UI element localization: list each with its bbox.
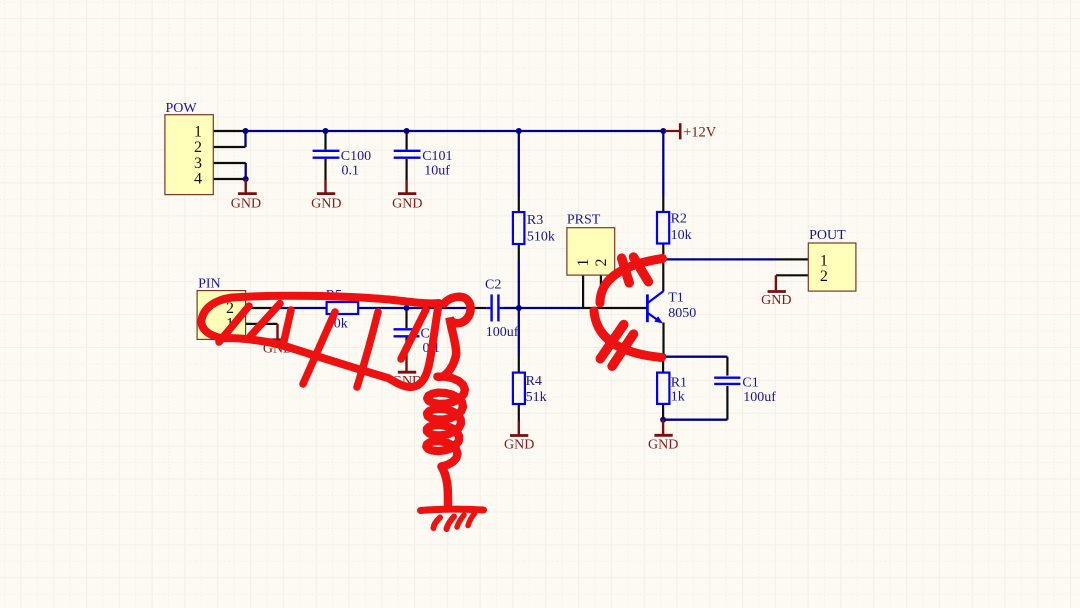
pin lead: T1 base	[581, 307, 646, 309]
svg-text:T1: T1	[668, 291, 684, 306]
capacitor C100	[313, 150, 340, 152]
junction: +12V rail node	[660, 128, 666, 134]
svg-text:R1: R1	[671, 375, 687, 390]
red annotation: ground tick 3	[457, 515, 464, 527]
pin stub: PIN pin 1	[246, 323, 278, 325]
svg-text:GND: GND	[648, 438, 678, 453]
svg-text:+12V: +12V	[683, 124, 717, 140]
ground symbol C3	[405, 355, 407, 372]
pin stub: POW pin 4	[213, 178, 245, 180]
pin lead: C1 bottom	[726, 386, 728, 420]
pin lead: T1 collector	[662, 259, 664, 291]
red annotation: upper capacitor plate 2	[634, 257, 649, 282]
pin lead: R4 bottom	[518, 404, 520, 422]
svg-text:100uf: 100uf	[743, 390, 776, 405]
pin stub: PRST pin 1	[582, 275, 584, 308]
svg-text:51k: 51k	[526, 390, 547, 405]
wire: rail to R3	[518, 131, 520, 197]
svg-text:PIN: PIN	[198, 276, 221, 291]
svg-text:1: 1	[820, 252, 828, 269]
svg-text:POUT: POUT	[809, 228, 846, 243]
junction: base node	[516, 305, 522, 311]
svg-text:100uf: 100uf	[486, 325, 519, 340]
red annotation: lower capacitor plate 1	[600, 325, 624, 359]
wire: C1 bottom to R1 bottom	[663, 419, 727, 421]
svg-text:GND: GND	[231, 197, 261, 212]
junction: POW pin1 node	[243, 128, 249, 134]
svg-text:R3: R3	[527, 213, 543, 228]
connector PIN box	[197, 291, 246, 340]
svg-text:GND: GND	[761, 293, 791, 308]
connector PRST box	[567, 228, 615, 275]
red annotation: ground bar	[421, 509, 484, 510]
pin lead: C101 bottom	[406, 159, 408, 180]
connector POUT box	[808, 243, 856, 291]
wire: base node to T1 base	[519, 307, 581, 309]
svg-text:POW: POW	[166, 101, 198, 116]
ground symbol POW	[244, 179, 246, 193]
wire: R5 to C3 node	[358, 307, 406, 309]
resistor R2	[657, 212, 669, 244]
svg-text:R2: R2	[671, 211, 687, 226]
svg-text:2: 2	[820, 268, 828, 285]
svg-text:GND: GND	[504, 437, 534, 452]
svg-text:1: 1	[575, 259, 592, 267]
pin stub: POW pin 1	[213, 130, 245, 132]
ground symbol R4	[518, 422, 520, 435]
wire: R3 to base node	[518, 261, 520, 309]
resistor R4	[513, 373, 525, 404]
pin lead: R2 top	[662, 197, 664, 213]
transistor T1 base bar	[646, 294, 649, 322]
wire: collector node to POUT	[663, 258, 776, 260]
red annotation: lower capacitor plate 2	[612, 334, 633, 366]
red annotation: hatch stroke 3	[303, 312, 335, 384]
wire: POW pin1-pin2 link	[244, 131, 246, 147]
wire: +12V power rail	[246, 130, 664, 132]
capacitor C3	[394, 328, 420, 330]
red annotation: hatch stroke 1	[219, 306, 249, 342]
svg-text:C100: C100	[341, 149, 371, 164]
svg-text:R4: R4	[526, 374, 542, 389]
svg-text:10k: 10k	[671, 228, 692, 243]
pin stub: PRST pin 2	[600, 275, 602, 308]
red annotation: hatch stroke 6	[401, 310, 426, 360]
svg-text:GND: GND	[392, 197, 422, 212]
svg-text:2: 2	[194, 139, 202, 156]
pin lead: C1 top	[726, 357, 728, 376]
svg-text:C1: C1	[742, 375, 758, 390]
resistor R3	[513, 212, 525, 244]
junction: emitter node	[661, 354, 667, 360]
svg-text:2: 2	[593, 259, 610, 267]
red annotation: lead down to ground	[442, 467, 449, 505]
pin lead: C101 top	[406, 131, 408, 150]
wire: base node to R4	[518, 308, 520, 356]
pin lead: R3 bottom	[518, 244, 520, 261]
pin lead: R2 bottom	[662, 244, 664, 260]
ground symbol PIN pin1	[276, 324, 278, 339]
red annotation: lower capacitor arc	[594, 311, 662, 358]
pin lead: R3 top	[518, 197, 520, 213]
wire: C2 to base node	[504, 307, 519, 309]
wire: rail to R2	[662, 131, 664, 197]
svg-text:C2: C2	[485, 278, 501, 293]
connector POW box	[165, 115, 213, 195]
pin lead: C3 top	[405, 308, 407, 328]
svg-text:PRST: PRST	[567, 212, 601, 227]
pin stub: PIN pin 2	[246, 307, 278, 309]
junction: C101 node	[404, 128, 410, 134]
red annotation: ground tick 1	[434, 518, 441, 529]
red annotation: balloon outline around input stage	[201, 296, 439, 387]
red annotation: hatch stroke 2	[250, 304, 280, 337]
svg-text:10uf: 10uf	[424, 163, 450, 178]
pin stub: POW pin 3	[213, 162, 245, 164]
svg-text:C101: C101	[422, 149, 452, 164]
red annotation: upper capacitor arc	[600, 259, 663, 304]
pin lead: C3 bottom	[405, 338, 407, 355]
pin lead: R4 top	[518, 356, 520, 373]
svg-text:8050: 8050	[668, 306, 696, 321]
pin stub: POUT pin 2	[776, 274, 808, 276]
pin stub: POUT pin 1	[777, 258, 809, 260]
transistor T1 emitter arrowhead	[654, 316, 663, 323]
wire: emitter node to C1	[664, 356, 728, 358]
pin lead: R1 top	[662, 357, 664, 373]
junction: C100 node	[323, 128, 329, 134]
pin lead: C100 top	[324, 131, 326, 150]
svg-text:510k: 510k	[527, 229, 555, 244]
svg-text:2: 2	[226, 300, 234, 317]
junction: R3 rail node	[516, 128, 522, 134]
resistor R5	[327, 302, 359, 314]
svg-text:1: 1	[194, 123, 202, 140]
transistor T1 collector stroke	[648, 291, 663, 303]
ground symbol C101	[405, 180, 407, 193]
red annotation: coil spring	[426, 362, 465, 467]
resistor R1	[657, 373, 669, 404]
junction: C3 tap node	[404, 305, 410, 311]
junction: R1 bottom node	[660, 417, 666, 423]
red annotation: ground tick 2	[447, 517, 455, 530]
wire: POW pin3-pin4 link	[245, 163, 247, 179]
svg-text:GND: GND	[311, 197, 341, 212]
pin lead: T1 emitter	[662, 323, 664, 357]
junction: POW pin4 / GND node	[243, 176, 249, 182]
ground symbol C100	[324, 180, 326, 193]
pin lead: C100 bottom	[324, 159, 326, 180]
pin stub: POW pin 2	[213, 146, 245, 148]
svg-text:4: 4	[194, 171, 202, 188]
power port +12V	[665, 130, 680, 132]
svg-text:1k: 1k	[671, 390, 685, 405]
wire: PIN pin2 to R5	[278, 307, 327, 309]
capacitor C1	[714, 377, 740, 379]
red annotation: squiggle loop at top	[444, 297, 471, 362]
capacitor C2	[486, 307, 490, 309]
red annotation: upper capacitor plate 1	[622, 258, 630, 283]
svg-text:3: 3	[194, 155, 202, 172]
transistor T1 emitter stroke	[648, 313, 660, 321]
junction: collector node	[660, 256, 666, 262]
ground symbol emitter/R1	[662, 420, 664, 434]
wire: C3 node to C2	[407, 307, 472, 309]
pin lead: C2 left	[471, 307, 486, 309]
pin lead: R1 bottom	[662, 404, 664, 420]
capacitor C101	[394, 150, 421, 152]
red annotation: hatch stroke 5	[283, 310, 291, 346]
red annotation: ground tick 4	[468, 514, 475, 526]
red annotation: hatch stroke 4	[357, 312, 378, 387]
ground symbol POUT pin2	[775, 275, 777, 290]
svg-text:0.1: 0.1	[342, 163, 360, 178]
